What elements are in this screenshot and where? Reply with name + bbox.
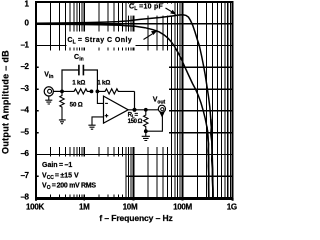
resistor 50 Ohm vertical zigzag [60, 91, 64, 120]
resistor RL vertical zigzag [144, 110, 148, 131]
op-amp U1 triangle [104, 96, 129, 123]
svg-text:150 Ω: 150 Ω [128, 119, 143, 125]
svg-text:100M: 100M [173, 202, 192, 211]
white box: CL=10pF label [127, 4, 173, 16]
svg-text:–3: –3 [21, 84, 30, 93]
svg-text:in: in [79, 57, 83, 63]
grid major vertical lines (1M 10M 100M) [84, 2, 182, 201]
arrow to 10pF curve [166, 8, 173, 12]
source VG1 circle [44, 87, 53, 96]
wire source to node A [53, 90, 62, 92]
curve bottoms (bolder wiggle) [211, 119, 213, 198]
op-amp plus sign [105, 114, 109, 118]
resistor 1kOhm feedback zigzag [97, 89, 134, 94]
svg-text:–1: –1 [21, 40, 30, 49]
feedback wire down to output [134, 91, 136, 109]
svg-text:–6: –6 [21, 149, 30, 158]
svg-text:in: in [49, 74, 53, 80]
svg-text:–4: –4 [21, 106, 30, 115]
svg-text:=10 pF: =10 pF [138, 3, 164, 10]
svg-text:out: out [157, 99, 165, 105]
svg-text:–5: –5 [21, 127, 30, 136]
ground under source [45, 96, 52, 104]
node B dot (inverting input node) [96, 90, 100, 94]
grid horizontal lines [36, 24, 233, 176]
svg-text:f – Frequency – Hz: f – Frequency – Hz [99, 213, 172, 223]
svg-text:Output Amplitude – dB: Output Amplitude – dB [1, 50, 11, 154]
op-amp minus sign [105, 102, 108, 104]
grid minor vertical lines [51, 2, 231, 198]
Cin loop wire up and across [62, 70, 97, 91]
svg-text:=: = [135, 111, 139, 118]
RL bottom node dot [144, 129, 148, 133]
svg-text:= 200 mV RMS: = 200 mV RMS [51, 183, 97, 190]
svg-text:10M: 10M [123, 202, 138, 211]
junction dot [90, 90, 94, 94]
svg-text:–8: –8 [21, 193, 30, 202]
output wire [128, 109, 158, 111]
wire RL bottom to ground [145, 131, 147, 136]
svg-text:1 kΩ: 1 kΩ [72, 80, 85, 87]
ground under 50 Ohm [59, 120, 66, 124]
svg-text:Gain = –1: Gain = –1 [42, 162, 72, 169]
wire RL bottom to Vout probe [146, 112, 163, 131]
node A dot [60, 90, 64, 94]
white box: conditions text [39, 157, 126, 195]
svg-text:1G: 1G [227, 202, 237, 211]
curve: CL = stray C only [36, 24, 209, 198]
svg-text:= Stray C Only: = Stray C Only [76, 37, 132, 44]
Vout probe circle [158, 105, 165, 112]
svg-text:100K: 100K [26, 202, 44, 211]
RL top node dot [144, 108, 148, 112]
svg-text:= ±15 V: = ±15 V [54, 172, 79, 179]
svg-text:–7: –7 [21, 171, 30, 180]
svg-text:50 Ω: 50 Ω [70, 101, 83, 108]
svg-text:1M: 1M [79, 202, 90, 211]
white box: schematic [39, 51, 169, 148]
capacitor Cin plates [79, 65, 84, 76]
ground at plus input [88, 125, 95, 129]
wire plus input to ground [92, 117, 104, 125]
svg-text:1 kΩ: 1 kΩ [97, 80, 110, 87]
arrow to stray curve [144, 34, 153, 40]
wire node B to inverting input [97, 91, 103, 103]
resistor 1kOhm input zigzag [62, 89, 92, 94]
output node dot [132, 108, 136, 112]
plot border [36, 2, 233, 198]
ground under RL [142, 136, 150, 140]
white box: stray label [67, 32, 136, 48]
svg-text:–2: –2 [21, 62, 30, 71]
curve: CL = 10 pF [36, 15, 213, 198]
